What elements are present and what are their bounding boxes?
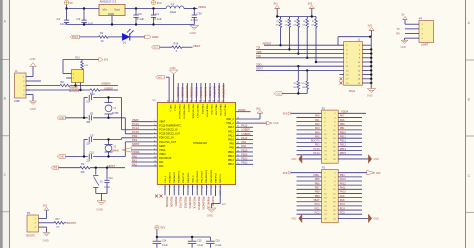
svg-text:PD1-OSC_OUT: PD1-OSC_OUT <box>159 141 177 144</box>
wire <box>80 36 146 38</box>
svg-text:C3: C3 <box>138 12 142 16</box>
MCU U1 STM32F103 <box>153 99 241 195</box>
svg-text:35: 35 <box>237 122 239 124</box>
svg-text:44: 44 <box>186 100 188 102</box>
svg-text:9: 9 <box>154 152 155 154</box>
svg-text:GND: GND <box>273 121 279 125</box>
svg-text:PA9: PA9 <box>241 141 246 144</box>
svg-text:PA5: PA5 <box>315 135 320 138</box>
switch S1 <box>93 168 103 194</box>
svg-text:5V: 5V <box>402 15 405 17</box>
net label VBAT <box>193 44 201 48</box>
svg-text:PB10/TX3: PB10/TX3 <box>183 172 185 183</box>
svg-text:AMS1117-3.3: AMS1117-3.3 <box>100 0 117 4</box>
svg-text:VSS_3: VSS_3 <box>165 175 167 183</box>
svg-text:BOOT0/PB: BOOT0/PB <box>186 85 189 98</box>
svg-text:TMS: TMS <box>256 51 261 54</box>
LED D1 <box>122 29 133 44</box>
svg-text:10K: 10K <box>56 227 60 229</box>
ground P3 right <box>338 214 379 223</box>
svg-text:PB14/MISO2: PB14/MISO2 <box>206 169 208 183</box>
inductor L1 <box>166 2 184 14</box>
capacitor C14 <box>153 237 169 248</box>
svg-text:18: 18 <box>187 186 189 188</box>
wires jtag left <box>256 42 344 74</box>
svg-text:36: 36 <box>237 118 239 120</box>
svg-text:PB9/TIM4CH4: PB9/TIM4CH4 <box>178 105 180 120</box>
svg-text:0.1uF: 0.1uF <box>197 245 203 247</box>
svg-text:R3: R3 <box>276 21 278 23</box>
svg-text:PB15/MOSI: PB15/MOSI <box>202 197 205 211</box>
svg-text:PB12: PB12 <box>241 162 248 165</box>
svg-text:PA13: PA13 <box>228 126 234 129</box>
TVS U2 USB6B1 <box>66 70 84 93</box>
svg-text:PB7/I2C1: PB7/I2C1 <box>191 86 194 97</box>
svg-text:PB13/SCK2: PB13/SCK2 <box>202 170 204 182</box>
ground xtal2 <box>57 155 66 159</box>
ground P3 left <box>291 214 321 223</box>
svg-text:PB4/SPI1: PB4/SPI1 <box>204 86 207 97</box>
svg-text:PC14-OSC32_IN: PC14-OSC32_IN <box>159 129 178 132</box>
svg-text:NRST: NRST <box>108 164 116 168</box>
svg-text:PA13/JTMS: PA13/JTMS <box>223 84 226 97</box>
svg-text:23: 23 <box>210 186 212 188</box>
svg-text:PC13: PC13 <box>72 37 78 39</box>
svg-text:PB15: PB15 <box>241 149 248 152</box>
net labels mcu bottom <box>165 190 220 210</box>
ground usb shield <box>30 57 37 76</box>
svg-text:PC1: PC1 <box>315 207 320 210</box>
svg-text:PB12: PB12 <box>228 163 235 166</box>
resistor R2 <box>80 162 90 174</box>
power port 5V <box>64 1 73 9</box>
svg-text:C1: C1 <box>57 17 61 21</box>
svg-text:GND: GND <box>291 158 297 161</box>
ground usb 5 <box>29 95 36 112</box>
svg-text:16: 16 <box>177 186 179 188</box>
svg-text:VDD_3: VDD_3 <box>192 175 194 183</box>
svg-text:VDD_1: VDD_1 <box>169 105 171 113</box>
svg-text:PD0-OSC_IN: PD0-OSC_IN <box>159 137 174 140</box>
wire 3V3 rail <box>125 7 166 9</box>
svg-text:28: 28 <box>237 150 239 152</box>
net label VDD33 <box>236 109 251 112</box>
svg-text:USB: USB <box>14 99 20 103</box>
svg-text:3V3: 3V3 <box>256 107 261 110</box>
svg-text:1: 1 <box>154 120 155 122</box>
svg-text:BOOT0: BOOT0 <box>187 105 189 113</box>
svg-text:GND: GND <box>108 12 114 16</box>
svg-text:PB11: PB11 <box>340 135 347 138</box>
port 3V3 reset <box>51 166 59 170</box>
wire jtag pullup rail <box>276 15 316 17</box>
wire reset gnd <box>96 194 107 201</box>
svg-text:PB12: PB12 <box>340 140 347 143</box>
port PC13 <box>70 35 80 39</box>
svg-text:SOT23-6: SOT23-6 <box>69 90 80 93</box>
wires P3 right <box>338 174 362 214</box>
svg-text:3V3: 3V3 <box>104 59 109 62</box>
svg-text:VDDA: VDDA <box>159 153 166 156</box>
port GND right <box>145 35 160 39</box>
svg-text:PA0: PA0 <box>132 154 137 158</box>
crystal Y2 <box>105 145 120 153</box>
ground mcu bottom <box>207 208 216 217</box>
svg-text:BOOT0: BOOT0 <box>311 140 320 143</box>
port PC row <box>152 46 160 50</box>
svg-text:7: 7 <box>154 144 155 146</box>
svg-text:PC4: PC4 <box>340 207 345 210</box>
svg-text:L1: L1 <box>171 2 175 6</box>
svg-text:40: 40 <box>204 100 206 102</box>
svg-text:PB15: PB15 <box>228 151 235 154</box>
svg-text:PA8/MCO: PA8/MCO <box>214 173 217 183</box>
svg-text:C10: C10 <box>89 150 94 154</box>
svg-text:VBAT: VBAT <box>193 44 201 48</box>
no-connect marks <box>155 195 163 198</box>
sheet border right <box>466 0 474 248</box>
port jtag gnd <box>274 92 282 96</box>
svg-text:10uH: 10uH <box>170 10 177 14</box>
svg-text:42: 42 <box>195 100 197 102</box>
svg-text:PA8/MCO: PA8/MCO <box>206 197 209 208</box>
svg-text:PA0: PA0 <box>315 115 320 118</box>
svg-text:VSS_1: VSS_1 <box>173 105 175 113</box>
net label NRST <box>108 164 116 168</box>
svg-text:PB9: PB9 <box>315 195 320 198</box>
svg-text:39P: 39P <box>86 122 91 124</box>
ground <box>190 25 199 35</box>
wire rails xtal2 <box>66 138 126 158</box>
svg-text:PA6: PA6 <box>340 119 345 122</box>
svg-text:GND: GND <box>30 57 36 61</box>
svg-text:PB10/TX3: PB10/TX3 <box>179 197 182 209</box>
svg-text:20: 20 <box>196 186 198 188</box>
svg-text:TDI: TDI <box>256 47 260 50</box>
svg-text:C30: C30 <box>197 11 203 15</box>
svg-text:PB4: PB4 <box>340 174 345 177</box>
svg-text:PC14: PC14 <box>313 152 320 155</box>
svg-text:8MHZ: 8MHZ <box>112 151 119 153</box>
svg-text:VDDA: VDDA <box>198 5 206 9</box>
svg-text:25: 25 <box>237 163 239 165</box>
svg-text:BOOT0: BOOT0 <box>26 233 35 237</box>
svg-text:RX: RX <box>397 32 401 35</box>
wire D+ <box>26 89 118 91</box>
svg-text:3V3: 3V3 <box>160 226 165 230</box>
svg-text:29: 29 <box>237 146 239 148</box>
svg-text:PA1: PA1 <box>132 158 137 162</box>
svg-text:R7: R7 <box>312 21 314 23</box>
svg-text:R6: R6 <box>303 21 305 23</box>
ground P2 left <box>291 155 321 164</box>
svg-text:PB1: PB1 <box>340 127 345 130</box>
svg-text:R17: R17 <box>56 219 61 221</box>
svg-text:C2: C2 <box>77 17 81 21</box>
wire mcu right labels <box>240 125 253 165</box>
svg-text:C9: C9 <box>90 133 94 137</box>
svg-text:3V3: 3V3 <box>368 25 373 28</box>
wire uart tx <box>397 28 415 31</box>
svg-text:C11: C11 <box>109 178 114 180</box>
svg-text:PB5/SPI3: PB5/SPI3 <box>201 105 203 115</box>
svg-text:PB3/JTDO: PB3/JTDO <box>210 105 212 116</box>
port 3V3 usb <box>99 58 109 62</box>
svg-text:43: 43 <box>190 100 192 102</box>
resistors R3-R7 <box>276 17 318 64</box>
svg-text:26: 26 <box>237 159 239 161</box>
svg-text:22P: 22P <box>86 144 91 146</box>
svg-text:3: 3 <box>154 128 155 130</box>
svg-text:11: 11 <box>154 161 156 163</box>
capacitor C11 <box>104 168 113 194</box>
svg-text:VDDA: VDDA <box>341 110 348 114</box>
wire <box>160 46 193 48</box>
resistor R17 <box>44 219 67 229</box>
svg-text:GND: GND <box>291 217 297 220</box>
svg-text:NRST: NRST <box>256 68 263 71</box>
no-connect jtag <box>339 77 342 84</box>
svg-text:GND: GND <box>43 239 49 243</box>
svg-text:C14: C14 <box>162 241 167 243</box>
net label USBDM <box>101 82 110 86</box>
port 3V3 P3 left <box>283 171 322 175</box>
power port 3V3 jtag b <box>308 3 315 17</box>
wires jtag right <box>338 36 372 89</box>
svg-text:GND: GND <box>367 93 373 97</box>
wire pin2 <box>30 80 41 82</box>
svg-text:PB0/ADC8: PB0/ADC8 <box>168 171 171 182</box>
svg-text:PB2/BOOT1: PB2/BOOT1 <box>179 170 181 183</box>
svg-text:VDD_2: VDD_2 <box>226 118 234 121</box>
svg-text:31: 31 <box>237 138 239 140</box>
svg-text:GND: GND <box>59 117 65 120</box>
svg-text:PA10: PA10 <box>340 191 347 194</box>
svg-text:C4: C4 <box>155 12 159 16</box>
svg-text:PC3: PC3 <box>340 203 345 206</box>
svg-text:PB14: PB14 <box>241 153 248 156</box>
svg-text:JTAG: JTAG <box>349 89 356 93</box>
capacitor C9 <box>86 133 94 145</box>
svg-text:PB10: PB10 <box>340 131 347 134</box>
svg-text:0.1uF: 0.1uF <box>216 245 222 247</box>
svg-text:C7: C7 <box>90 91 94 95</box>
svg-text:5V: 5V <box>70 1 73 5</box>
connector J1 USB <box>14 70 30 103</box>
svg-text:3V3: 3V3 <box>43 204 48 207</box>
svg-text:33: 33 <box>237 130 239 132</box>
capacitor C1 <box>57 9 70 26</box>
wire rails xtal1 <box>66 96 126 134</box>
svg-text:GND: GND <box>170 66 176 70</box>
svg-text:PC2: PC2 <box>315 211 320 214</box>
svg-text:3V3: 3V3 <box>308 3 313 6</box>
resistor R11 <box>60 82 70 87</box>
svg-text:32768: 32768 <box>112 113 119 115</box>
svg-text:25: 25 <box>219 186 221 188</box>
capacitor C15 <box>188 237 204 248</box>
resistor R1 <box>99 31 109 43</box>
svg-text:3V3: 3V3 <box>376 172 381 175</box>
svg-text:PB1/AD9: PB1/AD9 <box>170 197 173 208</box>
svg-text:NRST: NRST <box>159 145 166 148</box>
svg-text:VBAT: VBAT <box>132 118 139 122</box>
svg-text:C8: C8 <box>90 112 94 116</box>
wire VDDA <box>184 7 198 9</box>
svg-text:PB8/TIM4CH3: PB8/TIM4CH3 <box>183 105 185 120</box>
svg-text:PA12: PA12 <box>228 130 234 133</box>
svg-text:32: 32 <box>237 134 239 136</box>
svg-text:UART: UART <box>421 43 429 47</box>
svg-text:PB13/SCK: PB13/SCK <box>193 197 196 209</box>
svg-text:PB13: PB13 <box>228 159 235 162</box>
svg-text:USBDM: USBDM <box>101 82 110 86</box>
svg-text:D1: D1 <box>123 40 127 44</box>
svg-text:PA14/JTCK: PA14/JTCK <box>219 105 222 117</box>
svg-text:USB+: USB+ <box>313 174 320 177</box>
svg-text:PB3/SPI1: PB3/SPI1 <box>209 86 212 97</box>
svg-text:Vin: Vin <box>103 7 108 11</box>
svg-text:PC15-OSC32_OUT: PC15-OSC32_OUT <box>159 133 181 136</box>
svg-text:45: 45 <box>181 100 183 102</box>
svg-text:21: 21 <box>200 186 202 188</box>
svg-text:PA15/JTDI: PA15/JTDI <box>214 105 217 116</box>
wire U2 pullup <box>63 60 99 74</box>
svg-text:PB9/TIM4: PB9/TIM4 <box>177 86 180 98</box>
power port 3V3 caps <box>155 226 166 238</box>
svg-text:1K: 1K <box>101 39 104 43</box>
power port 3V3 <box>151 1 162 6</box>
svg-text:USBDP: USBDP <box>241 129 250 132</box>
svg-text:PA9: PA9 <box>229 143 234 146</box>
svg-text:PA4: PA4 <box>315 131 320 134</box>
svg-text:PC13: PC13 <box>313 148 320 151</box>
svg-text:PA2: PA2 <box>315 123 320 126</box>
svg-text:GND: GND <box>152 35 160 39</box>
net label VDDA P2 <box>338 110 366 114</box>
svg-text:PA8: PA8 <box>241 145 246 148</box>
svg-text:4: 4 <box>154 132 155 134</box>
capacitor C16 <box>206 237 222 248</box>
svg-text:48: 48 <box>168 100 170 102</box>
svg-text:13: 13 <box>164 186 166 188</box>
svg-text:PB8: PB8 <box>315 191 320 194</box>
resistor R13 <box>75 56 89 69</box>
svg-text:PB14: PB14 <box>340 148 347 151</box>
svg-text:GND: GND <box>373 217 379 220</box>
wires P2 right <box>338 115 362 155</box>
svg-text:PC13-TAMPER-RTC: PC13-TAMPER-RTC <box>159 125 181 128</box>
svg-text:R1: R1 <box>100 31 104 35</box>
capacitor C7 <box>86 91 94 103</box>
svg-text:VSSA: VSSA <box>159 149 166 152</box>
svg-text:30: 30 <box>237 142 239 144</box>
svg-text:PB12/NSS2: PB12/NSS2 <box>197 170 199 182</box>
svg-text:PB13: PB13 <box>340 144 347 147</box>
wire jtag res bottom <box>282 92 307 94</box>
wire D- <box>26 84 118 86</box>
svg-text:PB14/MISO: PB14/MISO <box>197 197 200 210</box>
svg-text:PB5: PB5 <box>315 178 320 181</box>
svg-text:PA3: PA3 <box>315 127 320 130</box>
svg-text:PB1/ADC9: PB1/ADC9 <box>173 171 176 182</box>
svg-text:PB7/I2C1SDA: PB7/I2C1SDA <box>192 105 195 119</box>
svg-text:46: 46 <box>177 100 179 102</box>
ground rail <box>67 23 195 25</box>
svg-text:PB6: PB6 <box>315 182 320 185</box>
svg-text:12: 12 <box>154 165 156 167</box>
svg-text:PA2: PA2 <box>159 165 164 168</box>
power port 3V3 boot <box>43 204 49 218</box>
svg-text:6: 6 <box>154 140 155 142</box>
ground P2 right <box>338 155 379 164</box>
port 3V3 P3 right <box>338 171 381 175</box>
svg-text:VBAT: VBAT <box>159 121 166 124</box>
svg-text:GND: GND <box>59 156 65 159</box>
svg-text:PA1: PA1 <box>159 161 164 164</box>
regulator U3 AMS1117 <box>99 0 125 24</box>
svg-text:PA13/JTMS: PA13/JTMS <box>224 105 227 117</box>
svg-text:R4: R4 <box>285 21 287 23</box>
svg-text:10K: 10K <box>81 172 86 174</box>
svg-text:3V3: 3V3 <box>283 171 288 175</box>
capacitor C4 <box>151 9 162 25</box>
svg-text:38: 38 <box>213 100 215 102</box>
svg-text:PA1: PA1 <box>315 119 320 122</box>
sheet border left <box>0 0 10 248</box>
power port 3V3 jtag right <box>368 25 375 37</box>
ground boot <box>43 227 50 243</box>
svg-text:34: 34 <box>237 126 239 128</box>
wire mcu left labels <box>122 118 153 166</box>
svg-text:0.1uF: 0.1uF <box>154 17 162 21</box>
power port 3V3 jtag a <box>273 3 280 17</box>
svg-text:0.1uF: 0.1uF <box>162 245 168 247</box>
svg-text:PB8/TIM4: PB8/TIM4 <box>182 86 185 98</box>
svg-text:C16: C16 <box>216 241 221 243</box>
connector P4 UART <box>414 18 434 47</box>
svg-text:PA14/JTCK: PA14/JTCK <box>218 85 221 98</box>
svg-text:USBDP: USBDP <box>104 86 113 90</box>
svg-text:PA0-WKUP: PA0-WKUP <box>159 157 172 160</box>
svg-text:VDD33: VDD33 <box>238 109 246 112</box>
svg-text:PB0/AD8: PB0/AD8 <box>165 197 168 208</box>
svg-text:VDDA: VDDA <box>132 150 140 154</box>
resistor R16 <box>172 41 182 53</box>
svg-text:22: 22 <box>205 186 207 188</box>
svg-text:PA13: PA13 <box>241 125 248 128</box>
svg-text:INTRST: INTRST <box>263 42 272 45</box>
svg-text:PB2/BT1: PB2/BT1 <box>174 197 177 208</box>
net label BOOT0 <box>67 221 76 225</box>
svg-text:GND: GND <box>207 213 213 217</box>
port mcu top left <box>156 76 165 80</box>
svg-text:PA2: PA2 <box>132 162 137 166</box>
svg-text:24: 24 <box>214 186 216 188</box>
svg-text:PB12/NSS: PB12/NSS <box>188 197 191 209</box>
capacitor C2 <box>77 9 94 26</box>
svg-text:PB15/MOSI2: PB15/MOSI2 <box>211 169 213 183</box>
svg-text:14: 14 <box>168 186 170 188</box>
wires P3 left <box>297 174 322 214</box>
svg-text:10: 10 <box>154 156 156 158</box>
net label USBDP <box>104 86 113 90</box>
svg-text:3V3: 3V3 <box>53 168 58 170</box>
ground mcu left <box>122 148 153 153</box>
svg-text:PA10: PA10 <box>228 139 234 142</box>
svg-text:0.1uF: 0.1uF <box>191 18 198 22</box>
svg-text:GND: GND <box>373 158 379 161</box>
